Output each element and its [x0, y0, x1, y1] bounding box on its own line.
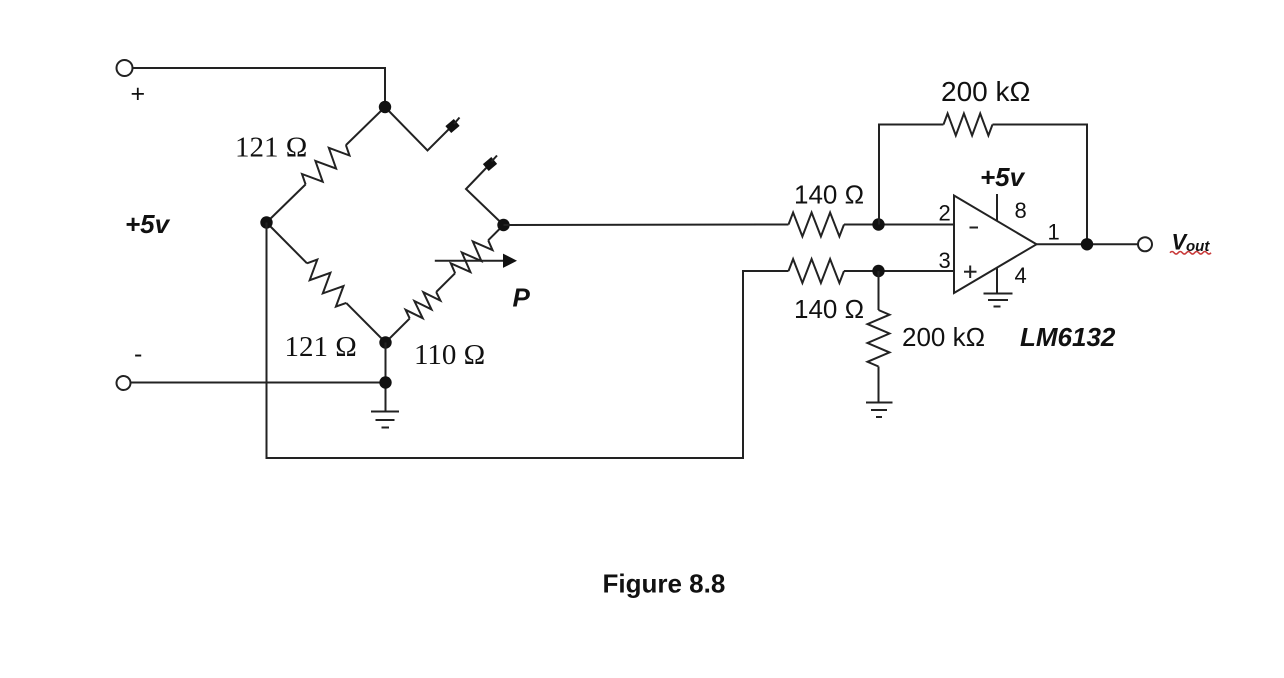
svg-text:121 Ω: 121 Ω [285, 331, 357, 363]
node: bridge bottom junction [379, 336, 391, 348]
supply stub to pin 8 [996, 194, 998, 221]
potentiometer wiper arrow [435, 254, 517, 268]
svg-text:Figure 8.8: Figure 8.8 [603, 569, 726, 599]
node: bridge left junction [260, 216, 272, 228]
svg-text:LM6132: LM6132 [1020, 322, 1116, 352]
op-amp non-inverting input symbol + [964, 266, 977, 279]
resistor R7 200 kΩ (pin 3 to ground) [868, 310, 890, 367]
svg-text:110 Ω: 110 Ω [414, 339, 485, 371]
wire: bridge right node to upper 140 Ω [504, 224, 789, 227]
svg-text:200 kΩ: 200 kΩ [941, 76, 1030, 107]
op-amp U1 LM6132 triangle [954, 196, 1037, 294]
wire: 140 Ω to op-amp non-inverting input [844, 270, 954, 272]
svg-text:-: - [134, 340, 142, 368]
terminal Vout (open circle) [1138, 237, 1152, 251]
svg-text:121 Ω: 121 Ω [235, 132, 307, 164]
svg-text:2: 2 [939, 201, 951, 226]
node: pin 2 junction [872, 218, 884, 230]
ground (op-amp pin 4) [984, 294, 1013, 307]
svg-text:4: 4 [1015, 263, 1027, 288]
node: bridge top junction [379, 101, 391, 113]
connector stub from bridge top node (sensor lead) [385, 107, 460, 151]
op-amp inverting input symbol - [970, 227, 979, 229]
node: junction of - wire on bridge ground leg [379, 376, 391, 388]
svg-text:3: 3 [939, 248, 951, 273]
node: pin 3 junction [872, 265, 884, 277]
label Vout [1172, 230, 1211, 256]
svg-text:8: 8 [1015, 198, 1027, 223]
wire: feedback resistor to output node [993, 125, 1088, 245]
svg-text:+5v: +5v [980, 162, 1026, 192]
ground (below 200 kΩ) [866, 403, 893, 418]
wire: pin 3 node down to 200 kΩ [878, 271, 880, 310]
svg-text:+5v: +5v [125, 209, 171, 239]
svg-text:140 Ω: 140 Ω [794, 294, 864, 324]
svg-text:1: 1 [1048, 220, 1060, 245]
terminal - (excitation negative) [117, 376, 131, 390]
resistor R1 121 Ω (bridge upper-left arm) [267, 107, 386, 223]
potentiometer P (variable resistor, bridge lower-right arm) [451, 225, 504, 273]
svg-text:140 Ω: 140 Ω [794, 180, 864, 210]
resistor R6 200 kΩ (feedback) [944, 114, 993, 136]
resistor R5 140 Ω (to op-amp pin 3) [789, 259, 845, 283]
svg-text:P: P [513, 283, 531, 313]
wire: op-amp output to Vout terminal [1037, 243, 1138, 245]
node: bridge right junction [497, 219, 509, 231]
wire: bridge left node down, along bottom, up to inverting-path lower rail [267, 223, 789, 459]
ground stub from pin 4 [996, 268, 998, 294]
wire: bridge bottom node down to ground [385, 343, 387, 412]
ground (bridge) [371, 412, 399, 428]
wire: feedback loop from pin 2 node up and over to output [879, 125, 944, 225]
red squiggle underline under Vout [1170, 252, 1211, 255]
svg-text:200 kΩ: 200 kΩ [902, 322, 985, 352]
wire: 140 Ω to op-amp inverting input [844, 224, 954, 226]
resistor R2 121 Ω (bridge lower-left arm) [267, 223, 386, 343]
wire: 200 kΩ to ground [878, 367, 880, 403]
resistor R3 110 Ω (bridge lower-right arm) [386, 273, 456, 342]
svg-text:+: + [131, 80, 146, 108]
wire: - terminal to bridge bottom junction [131, 382, 386, 384]
terminal + (excitation positive) [117, 60, 133, 76]
node: output junction [1081, 238, 1093, 250]
connector stub to bridge right node (sensor lead) [466, 156, 504, 226]
wire: + terminal to bridge top node [132, 68, 385, 107]
resistor R4 140 Ω (to op-amp pin 2) [789, 213, 845, 237]
